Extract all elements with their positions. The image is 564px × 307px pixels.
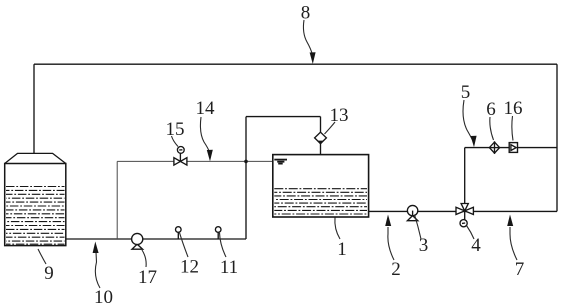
svg-text:14: 14 [196, 98, 216, 119]
wire: tank 9 outlet pipe (net 10) [66, 238, 246, 240]
svg-text:9: 9 [44, 263, 54, 284]
label 4 leader [467, 226, 475, 240]
wire: right riser from pipe 7 to top line [556, 64, 558, 211]
wire: recirculation left riser [116, 161, 118, 239]
wire: top return line (net 8) [34, 63, 557, 65]
sensor 12 [176, 227, 182, 239]
svg-text:11: 11 [220, 257, 238, 278]
label 15 leader [172, 136, 179, 147]
label 1 leader [335, 218, 340, 240]
wire: recirculation top line through valve 15 (net 14) [117, 160, 273, 162]
device 6 (diamond with cross) [489, 141, 499, 154]
device 13 (diamond with spray head) [315, 132, 327, 144]
svg-text:5: 5 [461, 82, 471, 103]
label 17 leader [142, 250, 146, 267]
svg-text:12: 12 [180, 257, 199, 278]
tank 9 [5, 153, 66, 245]
svg-text:13: 13 [330, 105, 349, 126]
pump 17 [132, 233, 143, 249]
svg-text:4: 4 [471, 235, 481, 256]
label 13 leader [325, 122, 336, 134]
label 9 leader [38, 249, 46, 264]
svg-text:1: 1 [337, 239, 347, 260]
label 6 leader [490, 117, 494, 140]
tank 1 [273, 155, 369, 217]
svg-text:2: 2 [391, 259, 401, 280]
label 7 leader arrow [510, 227, 517, 260]
label 8 leader arrow [303, 20, 312, 55]
svg-text:8: 8 [301, 3, 311, 24]
labels and leader lines [38, 20, 517, 288]
svg-text:6: 6 [486, 99, 496, 120]
label 2 leader arrow [388, 227, 394, 260]
label 16 leader [512, 116, 513, 141]
svg-text:17: 17 [138, 267, 157, 288]
sensor 11 [215, 227, 221, 239]
svg-text:16: 16 [504, 98, 523, 119]
wire: valve 4 riser (net 5) [464, 148, 466, 204]
node: junction of riser and valve-15 line [244, 160, 248, 164]
svg-text:7: 7 [515, 259, 525, 280]
label 12 leader [180, 233, 189, 257]
wire: left downcomer from top line to tank 9 [33, 64, 35, 153]
svg-text:3: 3 [419, 235, 429, 256]
pump 3 [407, 205, 417, 220]
label 14 leader arrow [200, 117, 209, 152]
device 16 (boxed check valve) [509, 143, 517, 153]
valve 4 (three-way) [456, 204, 473, 227]
label 3 leader [415, 215, 422, 240]
wire: bypass line through 6 and 16 [465, 147, 557, 149]
wire: top transfer line (net 14 upper) [246, 116, 321, 118]
wire: riser from outlet pipe to top transfer line [245, 117, 247, 239]
label 5 leader arrow [463, 100, 473, 141]
svg-text:10: 10 [94, 287, 113, 307]
svg-text:15: 15 [166, 119, 185, 140]
wire: drop into device 13 and tank 1 [320, 117, 322, 155]
label 10 leader arrow [95, 252, 100, 288]
wire: tank 1 outlet pipe (net 2 / 7) [369, 210, 557, 212]
label 11 leader [220, 233, 227, 257]
valve 15 [174, 147, 187, 166]
